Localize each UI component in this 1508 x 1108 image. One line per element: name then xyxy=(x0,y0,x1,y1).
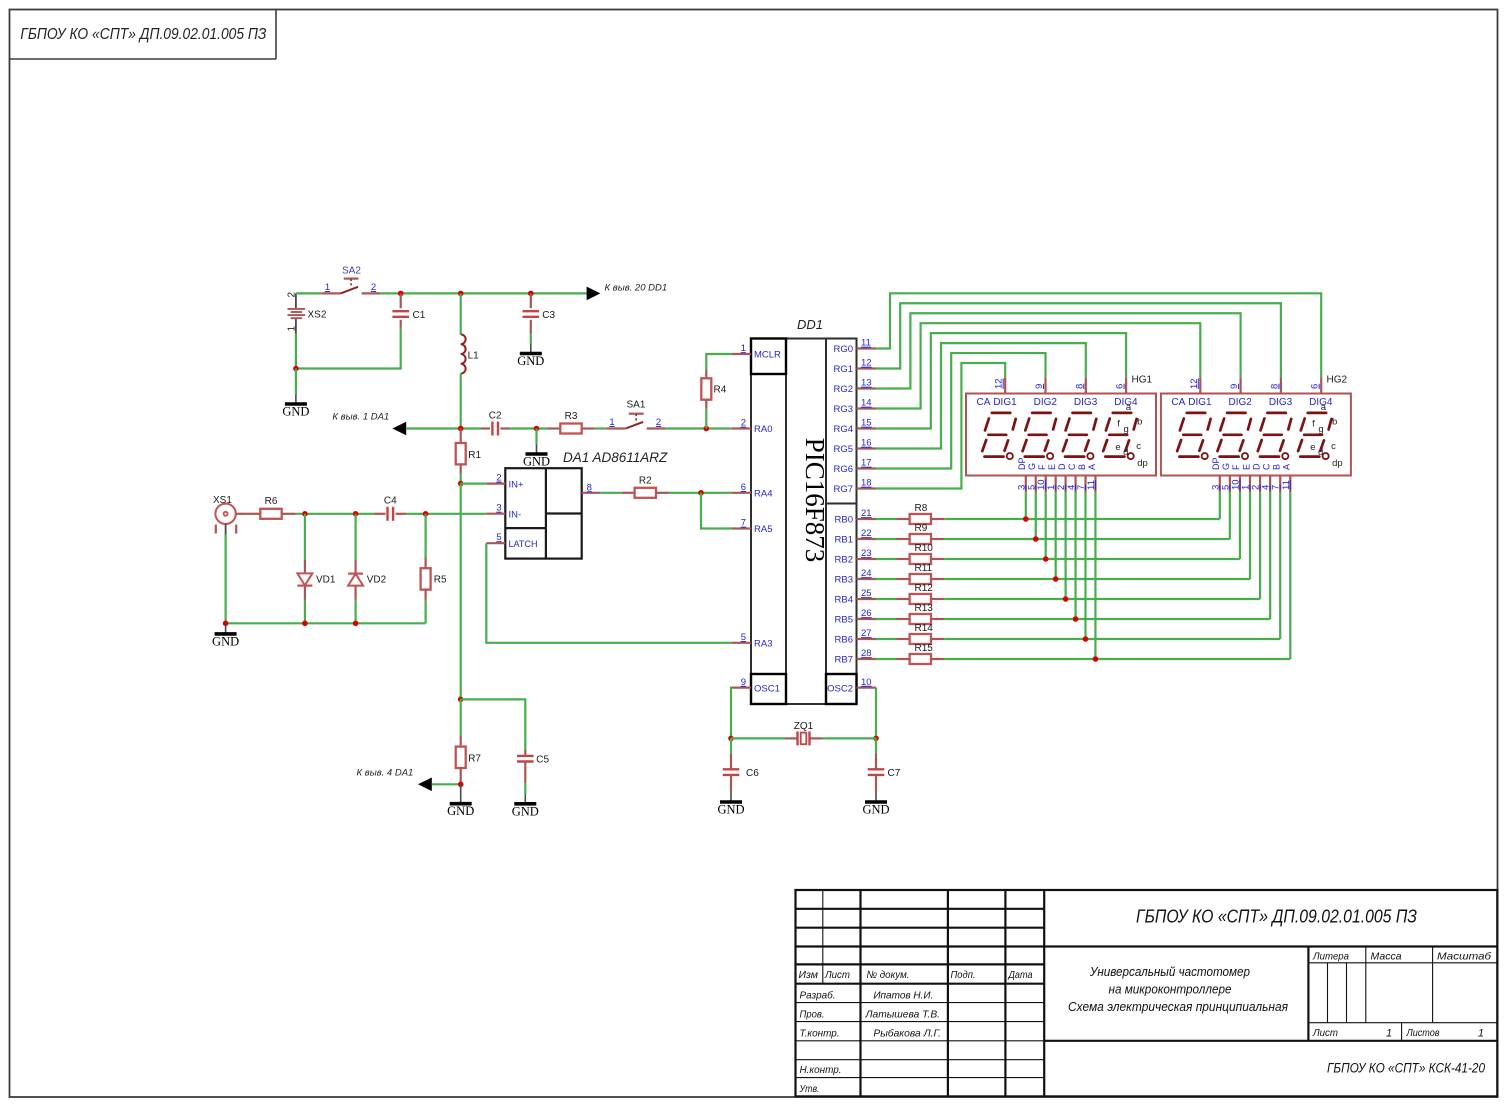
svg-text:C1: C1 xyxy=(413,310,426,321)
svg-text:E: E xyxy=(1241,464,1251,470)
pin 3 IN- stub xyxy=(486,503,505,514)
HG1 bottom pin 3 DP xyxy=(1016,457,1027,492)
svg-text:8: 8 xyxy=(1074,384,1085,389)
label HG1 xyxy=(1132,375,1153,386)
svg-text:Рыбакова Л.Г.: Рыбакова Л.Г. xyxy=(873,1027,941,1039)
svg-text:DIG3: DIG3 xyxy=(1269,397,1293,408)
HG2 top pin 9 xyxy=(1229,377,1241,393)
ground C5 xyxy=(512,794,539,818)
wire R2 to RA4 xyxy=(669,492,732,494)
HG2 bottom pin 1 E xyxy=(1241,464,1252,492)
switch SA2 xyxy=(321,266,380,294)
wire RG1 segment net xyxy=(876,303,1281,377)
svg-text:Литера: Литера xyxy=(1312,951,1349,963)
capacitor C7 xyxy=(868,738,901,792)
svg-text:RB1: RB1 xyxy=(835,535,853,546)
HG1 segment letters xyxy=(1115,402,1147,469)
HG2 bottom pin 10 F xyxy=(1230,464,1241,492)
pin 26 RB5 xyxy=(835,608,876,626)
svg-text:R8: R8 xyxy=(915,503,928,514)
wire RB4 to segment columns xyxy=(944,492,1260,599)
svg-text:RA5: RA5 xyxy=(754,524,772,535)
svg-text:GND: GND xyxy=(447,804,474,818)
svg-text:R14: R14 xyxy=(915,623,934,634)
svg-text:Масштаб: Масштаб xyxy=(1437,951,1492,963)
wire +power top rail xyxy=(296,292,587,294)
resistor R13 xyxy=(876,603,944,624)
wire to RA5 xyxy=(701,493,732,529)
pin 1 MCLR xyxy=(732,343,781,361)
svg-text:C5: C5 xyxy=(536,755,549,766)
svg-text:RB2: RB2 xyxy=(835,555,853,566)
junction gnd rail XS1 xyxy=(223,621,229,627)
svg-text:d: d xyxy=(1123,447,1128,458)
resistor R11 xyxy=(876,563,944,584)
wire RB3 to segment columns xyxy=(944,492,1250,579)
junction RB1 HG1 column xyxy=(1033,536,1039,542)
diode VD1 xyxy=(297,514,335,624)
svg-text:9: 9 xyxy=(1034,384,1045,389)
HG1 top pin 6 xyxy=(1115,377,1127,393)
svg-text:OSC2: OSC2 xyxy=(827,683,853,694)
top-left document stamp box xyxy=(10,10,277,60)
ground C6 xyxy=(717,793,744,817)
wire input net xyxy=(296,513,487,515)
junction GND tap RA0 line xyxy=(534,426,540,432)
svg-text:RG4: RG4 xyxy=(833,424,853,435)
svg-text:26: 26 xyxy=(861,608,872,619)
wire R1 continues down xyxy=(460,484,462,700)
wire R3 to SA1 xyxy=(595,427,607,429)
organization cell xyxy=(1327,1061,1485,1077)
resistor R6 xyxy=(246,496,295,519)
inductor L1 xyxy=(461,293,479,428)
wire OSC2 to crystal xyxy=(875,688,877,739)
capacitor C4 xyxy=(375,496,407,521)
capacitor C1 xyxy=(392,293,425,327)
svg-text:C6: C6 xyxy=(746,768,759,779)
svg-text:R15: R15 xyxy=(915,643,934,654)
svg-text:Утв.: Утв. xyxy=(799,1083,820,1095)
svg-text:HG1: HG1 xyxy=(1132,375,1153,386)
HG1 bottom pin 10 F xyxy=(1036,464,1047,492)
wire RG5 segment net xyxy=(876,343,1086,448)
svg-text:B: B xyxy=(1077,464,1087,470)
svg-text:c: c xyxy=(1331,441,1336,452)
svg-text:28: 28 xyxy=(861,648,872,659)
svg-text:PIC16F873: PIC16F873 xyxy=(800,438,830,563)
pin 9 OSC1 xyxy=(732,677,780,695)
HG2 bottom pin 5 G xyxy=(1220,463,1231,492)
wire RB2 to segment columns xyxy=(944,492,1240,559)
pin 5 RA3 xyxy=(732,632,772,650)
svg-text:ZQ1: ZQ1 xyxy=(794,721,814,732)
title block signature rows xyxy=(799,990,941,1096)
junction RB3 HG1 column xyxy=(1053,576,1059,582)
resistor R2 xyxy=(622,476,669,498)
pin 2 RA0 xyxy=(732,418,772,436)
pin 5 LATCH stub xyxy=(486,532,505,543)
svg-text:RA4: RA4 xyxy=(754,489,772,500)
resistor R15 xyxy=(876,643,944,664)
resistor R10 xyxy=(876,543,944,564)
svg-text:OSC1: OSC1 xyxy=(754,683,780,694)
svg-text:a: a xyxy=(1321,402,1327,413)
wire C2 to R3 xyxy=(510,427,548,429)
svg-text:№ докум.: № докум. xyxy=(867,969,910,981)
svg-text:на микроконтроллере: на микроконтроллере xyxy=(1109,982,1232,997)
wire C1 to XS2 bottom xyxy=(296,328,401,369)
pin 17 RG6 xyxy=(833,458,876,476)
junction crystal right xyxy=(873,736,879,742)
svg-text:d: d xyxy=(1318,447,1323,458)
pin 12 RG1 xyxy=(833,358,876,376)
svg-text:23: 23 xyxy=(861,548,872,559)
svg-text:6: 6 xyxy=(1115,384,1126,389)
resistor R7 xyxy=(456,699,482,784)
svg-text:1: 1 xyxy=(741,343,746,354)
svg-text:11: 11 xyxy=(1086,480,1097,490)
svg-text:9: 9 xyxy=(1229,384,1240,389)
pin 13 RG2 xyxy=(833,378,876,396)
pin 10 OSC2 xyxy=(827,677,876,695)
HG2 digit 2 segments xyxy=(1218,413,1251,459)
arrow to pin 1 DA1 xyxy=(332,412,406,436)
junction R4 bottom xyxy=(704,426,710,432)
svg-text:MCLR: MCLR xyxy=(754,350,781,361)
HG2 bottom pin 3 DP xyxy=(1210,457,1221,492)
microcontroller DD1 PIC16F873 xyxy=(751,317,857,704)
junction RB4 HG1 column xyxy=(1063,596,1069,602)
HG1 top pin 9 xyxy=(1034,377,1046,393)
wire R7/C5 link xyxy=(461,699,526,738)
svg-text:g: g xyxy=(1318,424,1323,435)
svg-text:8: 8 xyxy=(1269,384,1280,389)
svg-text:12: 12 xyxy=(861,358,872,369)
svg-text:IN-: IN- xyxy=(509,510,522,521)
junction R7 node xyxy=(458,697,464,703)
wire OSC1 to crystal xyxy=(731,688,732,739)
svg-text:e: e xyxy=(1310,442,1315,453)
junction RA4/RA5 node xyxy=(698,490,704,496)
junction RB6 HG1 column xyxy=(1083,636,1089,642)
junction IN+ node xyxy=(458,481,464,487)
svg-text:Разраб.: Разраб. xyxy=(800,990,836,1002)
svg-text:Схема электрическая принципиал: Схема электрическая принципиальная xyxy=(1068,999,1288,1014)
svg-text:F: F xyxy=(1037,464,1047,470)
HG1 top pin 8 xyxy=(1074,377,1086,393)
svg-text:1: 1 xyxy=(287,326,298,332)
svg-text:22: 22 xyxy=(861,528,872,539)
pin 6 RA4 xyxy=(732,482,772,500)
svg-text:10: 10 xyxy=(861,677,872,688)
HG1 bottom pin 4 C xyxy=(1066,463,1077,492)
svg-text:RG7: RG7 xyxy=(833,484,853,495)
connector XS2 xyxy=(287,292,327,334)
svg-text:RA3: RA3 xyxy=(754,639,772,650)
svg-text:XS1: XS1 xyxy=(213,495,232,506)
crystal ZQ1 xyxy=(731,721,876,745)
svg-text:27: 27 xyxy=(861,628,872,639)
HG2 bottom pin 7 B xyxy=(1271,464,1282,492)
svg-text:К выв. 20 DD1: К выв. 20 DD1 xyxy=(605,283,668,294)
svg-text:Н.контр.: Н.контр. xyxy=(800,1064,842,1076)
ground C3 xyxy=(517,344,544,368)
svg-text:dp: dp xyxy=(1137,458,1148,469)
svg-text:E: E xyxy=(1047,464,1057,470)
svg-text:2: 2 xyxy=(656,417,661,428)
pin 22 RB1 xyxy=(835,528,876,546)
svg-text:RB6: RB6 xyxy=(835,635,853,646)
litera massa masshtab labels xyxy=(1312,951,1492,963)
svg-text:16: 16 xyxy=(861,438,872,449)
capacitor C3 xyxy=(523,293,556,344)
svg-text:RA0: RA0 xyxy=(754,424,772,435)
svg-text:R11: R11 xyxy=(915,563,933,574)
HG2 segment letters xyxy=(1310,402,1342,469)
svg-text:C: C xyxy=(1261,463,1271,470)
wire LATCH to RA3 xyxy=(486,543,732,643)
label HG2 xyxy=(1327,375,1348,386)
resistor R8 xyxy=(876,503,944,524)
svg-text:HG2: HG2 xyxy=(1327,375,1348,386)
resistor R14 xyxy=(876,623,944,644)
pin 25 RB4 xyxy=(835,588,876,606)
wire RG6 segment net xyxy=(876,353,1046,468)
title block header texts xyxy=(799,969,1033,981)
junction L1 top xyxy=(458,291,464,297)
wire XS1 shield down xyxy=(225,535,227,624)
svg-text:3: 3 xyxy=(496,503,501,514)
pin 11 RG0 xyxy=(833,338,876,356)
svg-text:RG6: RG6 xyxy=(833,464,853,475)
svg-text:2: 2 xyxy=(741,418,746,429)
svg-text:b: b xyxy=(1332,416,1337,427)
svg-text:Ипатов Н.И.: Ипатов Н.И. xyxy=(873,990,933,1002)
capacitor C2 xyxy=(481,411,510,436)
junction C1 top xyxy=(398,291,404,297)
svg-text:C7: C7 xyxy=(888,768,901,779)
HG1 bottom pin 2 D xyxy=(1056,463,1067,492)
wire comparator input node xyxy=(406,427,481,429)
svg-text:G: G xyxy=(1027,463,1037,470)
svg-text:14: 14 xyxy=(861,398,872,409)
ground XS1 rail xyxy=(212,624,239,648)
svg-text:F: F xyxy=(1231,464,1241,470)
svg-text:A: A xyxy=(1087,464,1097,470)
svg-text:6: 6 xyxy=(741,482,746,493)
svg-text:SA2: SA2 xyxy=(342,266,361,277)
junction gnd rail VD1 xyxy=(302,621,308,627)
svg-text:GND: GND xyxy=(523,455,550,469)
arrow to pin 4 DA1 xyxy=(357,768,461,792)
junction VD2 top xyxy=(353,511,359,517)
svg-text:R3: R3 xyxy=(565,411,578,422)
svg-text:17: 17 xyxy=(861,458,872,469)
HG2 digit 3 segments xyxy=(1258,413,1291,459)
svg-text:RB4: RB4 xyxy=(835,595,853,606)
svg-text:SA1: SA1 xyxy=(627,400,646,411)
svg-text:DIG3: DIG3 xyxy=(1074,397,1098,408)
wire DA1 out to R2 xyxy=(600,492,621,494)
svg-text:R10: R10 xyxy=(915,543,934,554)
svg-text:12: 12 xyxy=(994,378,1005,389)
svg-text:Листов: Листов xyxy=(1406,1027,1440,1039)
resistor R3 xyxy=(548,411,595,434)
svg-text:Латышева Т.В.: Латышева Т.В. xyxy=(865,1008,940,1020)
svg-text:25: 25 xyxy=(861,588,872,599)
svg-text:1: 1 xyxy=(609,417,614,428)
svg-text:D: D xyxy=(1251,463,1261,470)
svg-text:2: 2 xyxy=(287,292,298,298)
svg-text:7: 7 xyxy=(741,518,746,529)
svg-text:RB5: RB5 xyxy=(835,615,853,626)
svg-text:5: 5 xyxy=(496,532,501,543)
svg-text:R4: R4 xyxy=(714,385,727,396)
svg-text:DA1 AD8611ARZ: DA1 AD8611ARZ xyxy=(563,450,668,465)
svg-text:Универсальный частотомер: Универсальный частотомер xyxy=(1089,964,1250,979)
svg-text:IN+: IN+ xyxy=(509,480,525,491)
svg-text:dp: dp xyxy=(1332,458,1343,469)
svg-text:RG5: RG5 xyxy=(833,444,853,455)
svg-text:11: 11 xyxy=(861,338,871,349)
svg-text:21: 21 xyxy=(861,508,872,519)
resistor R1 xyxy=(456,429,482,484)
pin 21 RB0 xyxy=(835,508,876,526)
document name xyxy=(1068,964,1288,1014)
switch SA1 xyxy=(606,400,665,429)
wire bottom input gnd rail xyxy=(226,622,426,624)
svg-text:GND: GND xyxy=(212,634,239,648)
pin 18 RG7 xyxy=(833,478,876,496)
svg-text:DP: DP xyxy=(1211,457,1221,470)
svg-text:2: 2 xyxy=(496,473,501,484)
HG1 digit 4 segments xyxy=(1103,413,1136,459)
junction VD1 top xyxy=(302,511,308,517)
junction crystal left xyxy=(728,736,734,742)
svg-text:L1: L1 xyxy=(468,351,480,362)
svg-text:DP: DP xyxy=(1017,457,1027,470)
wire SA1 to RA0 xyxy=(666,427,732,429)
pin 24 RB3 xyxy=(835,568,876,586)
wire RG4 segment net xyxy=(876,333,1126,428)
HG2 digit 4 segments xyxy=(1298,413,1331,459)
wire RB5 to segment columns xyxy=(944,492,1270,619)
sheet row xyxy=(1312,1027,1484,1040)
wire RB0 to segment columns xyxy=(944,492,1220,519)
display HG1 7-segment module xyxy=(966,394,1156,476)
svg-text:C4: C4 xyxy=(384,496,397,507)
HG2 bottom pin 4 C xyxy=(1261,463,1272,492)
svg-text:К выв. 4 DA1: К выв. 4 DA1 xyxy=(357,768,414,779)
junction RB0 HG1 column xyxy=(1023,516,1029,522)
ground R7 xyxy=(447,784,474,818)
svg-text:DD1: DD1 xyxy=(797,317,823,332)
svg-text:Т.контр.: Т.контр. xyxy=(800,1027,840,1039)
svg-text:A: A xyxy=(1282,464,1292,470)
svg-text:R13: R13 xyxy=(915,603,934,614)
svg-text:CA: CA xyxy=(977,397,991,408)
svg-text:11: 11 xyxy=(1281,480,1292,490)
wire RB1 to segment columns xyxy=(944,492,1230,539)
svg-text:VD1: VD1 xyxy=(316,575,336,586)
junction L1 bottom / R1 top xyxy=(458,426,464,432)
svg-text:15: 15 xyxy=(861,418,872,429)
svg-text:RG3: RG3 xyxy=(833,404,853,415)
capacitor C6 xyxy=(723,738,760,792)
junction RB5 HG1 column xyxy=(1073,616,1079,622)
svg-text:a: a xyxy=(1126,402,1132,413)
svg-text:DIG1: DIG1 xyxy=(1188,397,1212,408)
wire RB7 to segment columns xyxy=(944,492,1290,659)
svg-text:Масса: Масса xyxy=(1371,951,1402,963)
svg-text:R12: R12 xyxy=(915,583,934,594)
svg-text:C: C xyxy=(1067,463,1077,470)
HG1 digit 1 segments xyxy=(982,413,1015,459)
pin 2 IN+ stub xyxy=(461,473,506,484)
svg-text:К выв. 1 DA1: К выв. 1 DA1 xyxy=(332,412,389,423)
op-amp comparator DA1 xyxy=(505,450,668,559)
display HG2 7-segment module xyxy=(1161,394,1351,476)
svg-text:RG2: RG2 xyxy=(833,384,853,395)
svg-text:24: 24 xyxy=(861,568,872,579)
svg-text:Изм: Изм xyxy=(799,969,818,981)
title block table xyxy=(796,890,1498,1096)
pin 15 RG4 xyxy=(833,418,876,436)
svg-text:Лист: Лист xyxy=(1312,1027,1338,1039)
resistor R9 xyxy=(876,523,944,544)
junction gnd rail VD2 xyxy=(353,621,359,627)
svg-text:XS2: XS2 xyxy=(308,309,327,320)
svg-text:f: f xyxy=(1117,419,1120,430)
resistor R4 xyxy=(701,354,732,429)
HG1 bottom pin 7 B xyxy=(1076,464,1087,492)
svg-text:f: f xyxy=(1312,419,1315,430)
svg-text:13: 13 xyxy=(861,378,872,389)
connector XS1 xyxy=(213,495,246,535)
svg-text:ГБПОУ КО «СПТ» КСК-41-20: ГБПОУ КО «СПТ» КСК-41-20 xyxy=(1327,1061,1485,1077)
svg-text:C2: C2 xyxy=(489,411,502,422)
HG2 top pin 6 xyxy=(1310,377,1322,393)
svg-text:RB7: RB7 xyxy=(835,655,853,666)
document code title xyxy=(1136,907,1417,927)
svg-text:GND: GND xyxy=(862,803,889,817)
ground near DA1 xyxy=(523,429,550,469)
svg-text:18: 18 xyxy=(861,478,872,489)
svg-text:CA: CA xyxy=(1171,397,1185,408)
HG1 bottom pin 1 E xyxy=(1046,464,1057,492)
junction RB7 HG1 column xyxy=(1093,656,1099,662)
pin 28 RB7 xyxy=(835,648,876,666)
svg-text:1: 1 xyxy=(1386,1028,1392,1040)
svg-text:R9: R9 xyxy=(915,523,928,534)
resistor R5 xyxy=(421,514,447,624)
svg-text:1: 1 xyxy=(325,282,330,293)
junction RB2 HG1 column xyxy=(1043,556,1049,562)
svg-text:GND: GND xyxy=(512,804,539,818)
capacitor C5 xyxy=(517,738,550,794)
svg-text:B: B xyxy=(1272,464,1282,470)
svg-text:R6: R6 xyxy=(265,496,278,507)
svg-text:D: D xyxy=(1057,463,1067,470)
resistor R12 xyxy=(876,583,944,604)
svg-text:RG0: RG0 xyxy=(833,344,853,355)
arrow to pin 20 DD1 xyxy=(587,283,668,301)
svg-text:9: 9 xyxy=(741,677,746,688)
svg-text:b: b xyxy=(1137,416,1142,427)
svg-text:ГБПОУ КО «СПТ» ДП.09.02.01.005: ГБПОУ КО «СПТ» ДП.09.02.01.005 ПЗ xyxy=(20,26,266,43)
junction R7 bottom xyxy=(458,782,464,788)
